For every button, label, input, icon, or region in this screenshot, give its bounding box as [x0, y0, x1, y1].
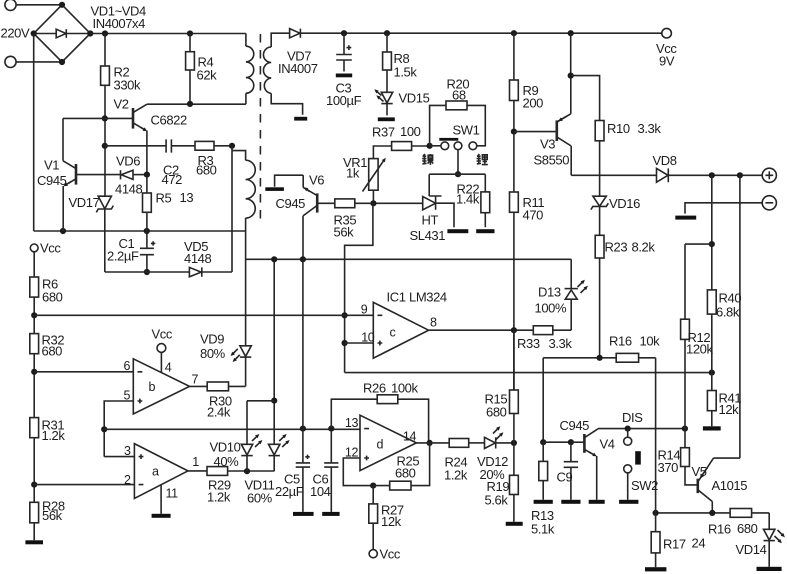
- svg-text:40%: 40%: [214, 454, 240, 469]
- node pin9 column junction: [31, 312, 37, 318]
- zener diode VD17: [69, 195, 114, 272]
- svg-text:S8550: S8550: [534, 153, 570, 168]
- svg-text:472: 472: [162, 172, 183, 187]
- LED D13 100%: [535, 259, 588, 315]
- wire VR1 junction to pin9 sense: [342, 203, 373, 372]
- resistor R37 100: [372, 124, 430, 159]
- transistor V2 C6822: [105, 97, 187, 175]
- svg-text:680: 680: [737, 521, 758, 536]
- svg-text:A1015: A1015: [712, 478, 748, 493]
- capacitor C6 104: [310, 429, 338, 512]
- transformer feedback winding: [232, 151, 255, 346]
- svg-text:1.5k: 1.5k: [394, 65, 418, 80]
- wire pin6 line: [34, 371, 133, 373]
- svg-text:100%: 100%: [535, 301, 567, 316]
- node V3 emitter junction: [568, 30, 574, 36]
- ground R19: [506, 522, 523, 526]
- svg-text:100k: 100k: [391, 381, 418, 396]
- capacitor C9: [543, 439, 578, 500]
- diode VD6 4148: [115, 154, 150, 197]
- node R2/C2 junction: [102, 143, 108, 149]
- svg-text:a: a: [152, 465, 159, 479]
- svg-text:IN4007x4: IN4007x4: [93, 16, 146, 31]
- wire pin9 line: [34, 314, 373, 316]
- ground C9: [561, 500, 580, 504]
- svg-text:4148: 4148: [115, 182, 142, 197]
- resistor R17 24: [651, 513, 705, 567]
- svg-text:4: 4: [165, 361, 172, 375]
- svg-text:R17: R17: [663, 537, 686, 552]
- wire V5 emitter to + rail: [739, 175, 741, 458]
- LED VD10 40%: [210, 401, 263, 471]
- svg-text:Vcc: Vcc: [152, 327, 173, 342]
- transformer secondary winding: [263, 33, 302, 115]
- svg-text:5.6k: 5.6k: [485, 493, 509, 508]
- svg-text:SL431: SL431: [410, 228, 446, 243]
- svg-text:R23: R23: [605, 240, 628, 255]
- svg-text:R37: R37: [372, 125, 395, 140]
- diode VD5 4148: [184, 239, 211, 277]
- ground HT: [447, 229, 468, 233]
- svg-text:330k: 330k: [114, 78, 141, 93]
- svg-text:IC1: IC1: [387, 290, 406, 305]
- diode VD8: [653, 153, 763, 182]
- terminal - output: [685, 196, 776, 214]
- label lithium (Li): [477, 154, 488, 165]
- svg-text:2.2µF: 2.2µF: [107, 249, 139, 264]
- node pin6 column junction: [31, 369, 37, 375]
- wire pin10 stub: [345, 342, 374, 344]
- wire pin8 output: [429, 327, 534, 333]
- shunt regulator HT SL431: [373, 174, 454, 243]
- svg-text:62k: 62k: [197, 68, 218, 83]
- wire pin10 feedback line y372: [345, 370, 715, 376]
- wire R13 column: [540, 358, 546, 446]
- transformer primary winding: [246, 34, 254, 105]
- ground R28: [25, 540, 43, 544]
- ground C5: [293, 512, 314, 516]
- svg-text:VD6: VD6: [116, 154, 140, 169]
- resistor R3 680: [195, 141, 232, 177]
- svg-text:7: 7: [192, 373, 199, 387]
- resistor R40 6.8k: [707, 290, 741, 391]
- LED VD11 60%: [245, 259, 290, 505]
- resistor R23 8.2k: [595, 235, 655, 357]
- svg-text:24: 24: [692, 536, 706, 551]
- svg-text:V5: V5: [692, 464, 707, 479]
- op-amp b: [123, 327, 198, 415]
- svg-text:c: c: [390, 326, 396, 340]
- svg-text:C945: C945: [276, 196, 306, 211]
- resistor R14 370: [658, 448, 698, 485]
- svg-text:VD8: VD8: [653, 153, 677, 168]
- ground - output: [675, 216, 696, 220]
- resistor R31 1.2k: [30, 418, 66, 503]
- resistor R5 13: [143, 175, 194, 231]
- svg-text:22µF: 22µF: [275, 484, 304, 499]
- svg-text:R16: R16: [708, 522, 731, 537]
- svg-text:1.4k: 1.4k: [456, 192, 480, 207]
- node SW1 pole to R22: [429, 173, 485, 175]
- bridge rectifier VD1~VD4 IN4007x4: [31, 2, 146, 65]
- svg-text:b: b: [149, 380, 156, 394]
- svg-text:6.8k: 6.8k: [716, 305, 740, 320]
- resistor R24 1.2k: [444, 439, 485, 483]
- svg-text:200: 200: [523, 96, 544, 111]
- svg-text:11: 11: [166, 487, 179, 501]
- svg-text:220V: 220V: [1, 26, 30, 41]
- svg-text:9V: 9V: [659, 54, 675, 69]
- svg-text:C945: C945: [560, 418, 590, 433]
- svg-text:12k: 12k: [381, 514, 402, 529]
- ground secondary winding: [294, 117, 307, 121]
- wire bottom rail y231: [34, 228, 246, 234]
- resistor R12 120k: [681, 319, 714, 356]
- ground pin11: [152, 514, 171, 518]
- resistor R29 1.2k: [188, 467, 274, 505]
- resistor R15 680: [485, 330, 519, 443]
- resistor R8 1.5k: [383, 33, 418, 92]
- terminal 220V line 2: [5, 56, 62, 67]
- svg-text:3: 3: [124, 444, 131, 458]
- svg-text:R33: R33: [517, 336, 540, 351]
- wire DIS line: [598, 426, 688, 432]
- transistor V1 C945: [37, 118, 121, 231]
- svg-text:1: 1: [192, 455, 199, 469]
- svg-text:V4: V4: [600, 437, 615, 452]
- svg-text:2.4k: 2.4k: [207, 405, 231, 420]
- LED VD14: [736, 529, 785, 567]
- svg-text:VD16: VD16: [609, 196, 640, 211]
- svg-text:LM324: LM324: [409, 290, 447, 305]
- resistor R10 3.3k: [595, 121, 661, 197]
- transistor V5 A1015: [692, 458, 748, 513]
- terminal 220V line 1: [5, 0, 62, 10]
- svg-text:680: 680: [42, 344, 63, 359]
- resistor R16 680: [708, 509, 769, 537]
- svg-text:d: d: [377, 438, 384, 452]
- LED VD15: [374, 89, 429, 115]
- resistor R6 680: [30, 277, 63, 334]
- node R8 junction: [384, 30, 390, 36]
- terminal DIS: [622, 410, 643, 445]
- svg-text:9: 9: [361, 303, 368, 317]
- svg-text:R5: R5: [156, 191, 172, 206]
- wire pin13 long line: [104, 426, 360, 432]
- svg-text:Vcc: Vcc: [40, 241, 61, 256]
- svg-text:470: 470: [523, 208, 544, 223]
- resistor R41 12k: [707, 391, 741, 427]
- svg-text:120k: 120k: [686, 342, 713, 357]
- svg-text:680: 680: [486, 405, 507, 420]
- svg-text:C9: C9: [557, 470, 573, 485]
- switch SW1: [430, 123, 480, 178]
- svg-text:104: 104: [310, 484, 331, 499]
- wire R16 right column: [655, 358, 657, 513]
- svg-text:R10: R10: [607, 121, 630, 136]
- svg-text:12k: 12k: [719, 402, 740, 417]
- wire + rail column: [685, 175, 715, 290]
- op-amp a: [124, 444, 199, 514]
- node R9 junction: [511, 30, 517, 36]
- node R33 junction vertical: [513, 330, 515, 390]
- svg-text:3.3k: 3.3k: [549, 336, 573, 351]
- terminal + output: [762, 168, 776, 182]
- svg-text:10k: 10k: [640, 334, 661, 349]
- resistor R4 62k: [186, 34, 218, 104]
- svg-text:370: 370: [658, 460, 679, 475]
- resistor R13 5.1k: [531, 442, 555, 536]
- svg-text:1.2k: 1.2k: [207, 490, 231, 505]
- svg-text:V1: V1: [44, 158, 59, 173]
- ground R41: [703, 426, 721, 430]
- svg-text:8.2k: 8.2k: [632, 240, 656, 255]
- capacitor C3 100uF: [326, 33, 362, 108]
- svg-text:HT: HT: [422, 213, 439, 228]
- zener diode VD16: [591, 196, 640, 235]
- svg-text:SW2: SW2: [631, 478, 658, 493]
- wire R12/R14 column: [684, 244, 686, 448]
- svg-text:5: 5: [123, 388, 130, 402]
- resistor R32 680: [30, 333, 65, 418]
- svg-text:VD9: VD9: [200, 332, 224, 347]
- svg-text:3.3k: 3.3k: [638, 121, 662, 136]
- svg-text:680: 680: [42, 290, 63, 305]
- svg-text:1.2k: 1.2k: [42, 428, 66, 443]
- transistor V4 C945: [560, 418, 615, 500]
- label nickel (Ni): [422, 154, 433, 165]
- ground VD15: [378, 117, 395, 121]
- ground VD14: [757, 567, 782, 571]
- svg-text:12: 12: [345, 445, 359, 459]
- resistor R9 200: [510, 33, 544, 131]
- svg-text:V6: V6: [309, 173, 324, 188]
- svg-text:R16: R16: [609, 334, 632, 349]
- transistor V3 S8550: [514, 33, 600, 175]
- ground C6: [322, 512, 339, 516]
- svg-text:1k: 1k: [346, 166, 360, 181]
- svg-text:IN4007: IN4007: [278, 61, 318, 76]
- svg-text:68: 68: [452, 88, 466, 103]
- svg-text:680: 680: [196, 163, 217, 178]
- wire V3 collector to VD8: [571, 174, 656, 176]
- svg-text:1.2k: 1.2k: [444, 468, 468, 483]
- wire top rail primary: [90, 30, 246, 36]
- resistor R25 680: [373, 443, 429, 490]
- switch SW2: [624, 451, 658, 500]
- svg-text:13: 13: [345, 416, 359, 430]
- terminal Vcc bottom: [369, 547, 401, 562]
- svg-text:10: 10: [361, 330, 375, 344]
- resistor R27 12k: [369, 486, 404, 550]
- LED VD12 20%: [477, 426, 517, 482]
- resistor R30 2.4k: [190, 382, 246, 420]
- wire bottom y513: [653, 510, 731, 516]
- svg-text:80%: 80%: [200, 346, 226, 361]
- resistor R20 68: [430, 77, 486, 146]
- svg-text:6: 6: [123, 359, 130, 373]
- op-amp d: [345, 415, 417, 470]
- ground V6 emitter: [265, 187, 284, 191]
- node pin2 column junction: [31, 482, 37, 488]
- svg-text:R40: R40: [719, 291, 742, 306]
- svg-text:60%: 60%: [247, 491, 273, 506]
- ground V4 emitter: [589, 500, 605, 504]
- wire V2 collector rail y104: [147, 101, 246, 107]
- node pin14: [416, 440, 449, 446]
- wire rail y272: [105, 271, 232, 273]
- node R2/V2 base junction: [102, 115, 108, 121]
- wire pin5 to pin3: [101, 401, 134, 457]
- resistor R28 56k: [30, 499, 65, 541]
- svg-text:4148: 4148: [184, 251, 211, 266]
- capacitor C5 22uF: [275, 429, 310, 512]
- resistor R22 1.4k: [456, 174, 490, 227]
- node C3 junction: [341, 30, 347, 36]
- wire V6 collector column: [302, 259, 304, 428]
- svg-text:V3: V3: [540, 137, 555, 152]
- diode VD7 IN4007: [278, 29, 662, 76]
- transformer core dashed line: [259, 34, 261, 219]
- wire pin2 line: [34, 484, 134, 486]
- resistor R11 470: [510, 132, 545, 331]
- op-amp c IC1 LM324: [361, 290, 447, 359]
- resistor R35 56k: [317, 199, 376, 240]
- svg-text:14: 14: [403, 430, 417, 444]
- svg-text:2: 2: [124, 473, 131, 487]
- resistor R33 3.3k: [517, 299, 572, 351]
- svg-text:D13: D13: [538, 285, 561, 300]
- svg-text:VD17: VD17: [69, 195, 100, 210]
- capacitor C1 2.2uF: [107, 231, 155, 275]
- svg-text:8: 8: [430, 316, 437, 330]
- svg-text:56k: 56k: [334, 225, 355, 240]
- svg-text:Vcc: Vcc: [380, 547, 401, 562]
- resistor R26 100k: [331, 381, 428, 443]
- svg-text:100µF: 100µF: [326, 93, 362, 108]
- potentiometer VR1 1k: [343, 155, 386, 203]
- svg-text:100: 100: [400, 124, 421, 139]
- svg-text:C945: C945: [37, 173, 67, 188]
- svg-text:5.1k: 5.1k: [531, 522, 555, 537]
- ground R22: [476, 229, 494, 233]
- transistor V6 C945: [275, 173, 325, 260]
- svg-text:DIS: DIS: [622, 410, 643, 425]
- node V3 base junction: [511, 129, 517, 135]
- node SW1 left junction: [427, 143, 433, 149]
- node R3/feedback winding junction: [229, 143, 235, 272]
- svg-text:C6822: C6822: [151, 113, 187, 128]
- ground SW2: [619, 500, 638, 504]
- svg-text:56k: 56k: [42, 508, 63, 523]
- wire rail y259: [246, 256, 572, 262]
- svg-text:VD14: VD14: [736, 542, 767, 557]
- svg-text:SW1: SW1: [453, 123, 480, 138]
- resistor R2 330k: [101, 34, 141, 197]
- svg-text:VD10: VD10: [210, 440, 241, 455]
- svg-text:V2: V2: [114, 97, 129, 112]
- terminal Vcc 9V: [656, 28, 677, 68]
- ground R13: [534, 500, 553, 504]
- ground R17: [645, 567, 666, 571]
- terminal Vcc left column: [30, 241, 61, 278]
- svg-text:680: 680: [395, 466, 416, 481]
- svg-text:VD15: VD15: [399, 91, 430, 106]
- wire left drop from bridge: [33, 34, 35, 232]
- LED VD9 80%: [200, 332, 251, 387]
- resistor R19 5.6k: [485, 443, 519, 522]
- wire pin12: [343, 458, 376, 489]
- resistor R16 10k: [543, 334, 660, 363]
- capacitor C2 472: [105, 139, 195, 187]
- svg-text:R26: R26: [363, 381, 386, 396]
- label 220V: [1, 26, 30, 41]
- svg-text:13: 13: [180, 190, 194, 205]
- ground C3: [336, 74, 352, 78]
